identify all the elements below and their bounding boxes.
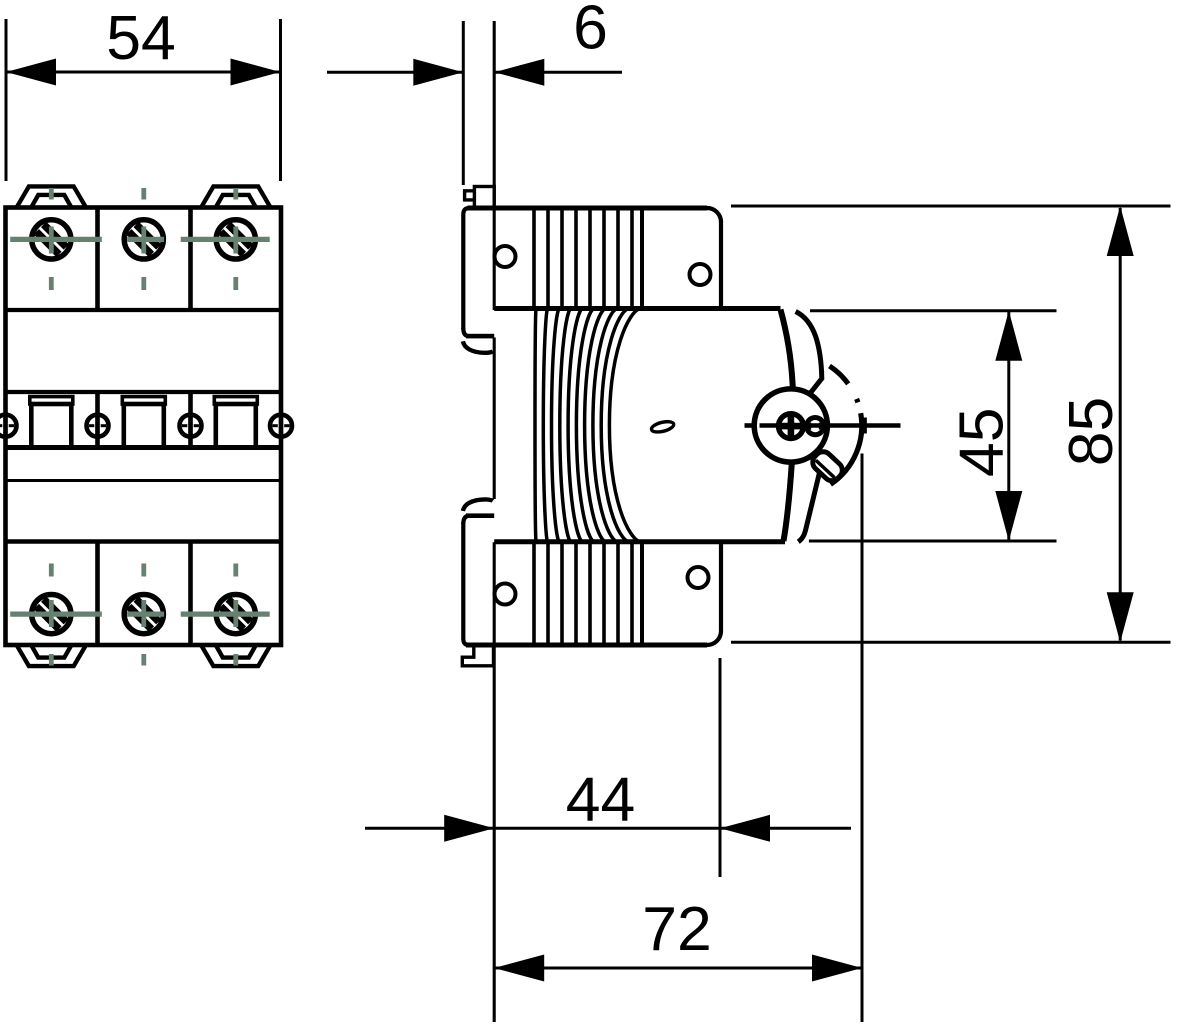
side view back edge lower / extension line <box>493 542 496 1022</box>
rivet screw 1 (middle band) <box>0 414 17 437</box>
green centerlines horizontal top screws <box>10 237 270 242</box>
DIN clip lower foot <box>462 647 493 666</box>
side hole circle bottom-right <box>688 567 709 588</box>
side hole circle bottom-left <box>495 584 516 605</box>
toggle lever handle <box>809 448 846 484</box>
front view toggle section bottom line <box>6 445 282 450</box>
front view top terminal section line <box>6 308 282 312</box>
side view bottom edge <box>466 631 721 645</box>
terminal screw bottom pole 1 <box>32 595 71 634</box>
terminal screw bottom pole 3 <box>216 595 255 634</box>
terminal screw top pole 3 <box>216 220 255 259</box>
DIN clip lower latch hook <box>463 499 494 524</box>
dim 6 left extension line <box>462 21 465 185</box>
dim 44 left arrowhead <box>444 815 494 842</box>
side view left edge upper (DIN housing) <box>463 208 469 330</box>
side view back edge upper segment <box>493 21 496 310</box>
dim 45 bottom extension line <box>809 540 1057 543</box>
svg-text:44: 44 <box>566 765 636 835</box>
side view back edge middle segment <box>493 338 496 500</box>
rivet screw 2 (middle band) <box>87 414 109 437</box>
rib stripes bottom flange <box>534 542 632 643</box>
dim 72 right arrowhead <box>812 955 862 982</box>
dim 54 right extension line <box>279 19 282 181</box>
dim 85 bottom extension line <box>731 641 1171 644</box>
dim 85 label <box>1056 397 1126 467</box>
curved rib arcs middle section <box>535 309 640 542</box>
green vertical centerline top pole 1 <box>49 188 54 290</box>
svg-text:72: 72 <box>642 894 712 964</box>
flat panel left edge bottom <box>640 542 644 645</box>
toggle horizontal centerline <box>745 423 901 428</box>
front view middle thin line <box>6 479 282 482</box>
toggle pivot small circle <box>806 418 824 435</box>
dim 54 left arrowhead <box>6 59 56 86</box>
dim 54 right arrowhead <box>231 59 281 86</box>
side hole circle top-left <box>495 246 516 267</box>
dim 45 top extension line <box>810 309 1057 312</box>
dim 44 right extension line <box>719 658 722 877</box>
green centerlines horizontal bottom screws <box>10 611 270 616</box>
toggle handle pole 2 <box>122 397 165 448</box>
terminal screw bottom pole 2 <box>124 595 163 634</box>
front view pole divider 2 (toggle section) <box>188 392 193 448</box>
green vertical centerline top pole 3 <box>233 188 238 290</box>
dim 85 top extension line <box>731 205 1171 208</box>
dim 54 left extension line <box>5 19 8 181</box>
dim 6 right arrowhead <box>494 59 544 86</box>
svg-text:54: 54 <box>106 3 176 73</box>
dim 44 label <box>566 765 636 835</box>
rivet screw 3 (middle band) <box>180 414 202 437</box>
front bottom-right mounting tab <box>201 645 271 666</box>
front face profile line upper <box>781 310 793 390</box>
dim 85 dimension line <box>1119 208 1122 641</box>
side view right edge upper <box>719 221 723 309</box>
front face profile line lower <box>784 463 792 541</box>
rivet screw 4 (middle band) <box>270 414 292 437</box>
dim 44 dimension line <box>365 827 851 830</box>
front view bottom terminal section line <box>6 539 282 543</box>
dim 45 dimension line <box>1007 312 1010 540</box>
dim 6 dimension line left tail <box>327 71 463 74</box>
bezel top edge <box>796 312 822 393</box>
dim 44 right arrowhead <box>720 815 770 842</box>
green vertical centerline bottom pole 1 <box>49 564 54 666</box>
dim 72 label <box>642 894 712 964</box>
dim 45 top arrowhead <box>995 311 1022 361</box>
green vertical centerline bottom pole 3 <box>233 564 238 666</box>
dim 6 left arrowhead <box>413 59 463 86</box>
dim 6 label <box>573 0 608 63</box>
side view flange bottom line upper <box>494 306 780 311</box>
rib stripes top flange <box>534 210 632 308</box>
green vertical centerline bottom pole 2 <box>141 564 146 666</box>
toggle swing dashed arc <box>830 366 862 484</box>
toggle handle pole 1 <box>30 397 73 448</box>
toggle handle pole 3 <box>214 397 257 448</box>
terminal screw top pole 2 <box>124 220 163 259</box>
flat panel left edge top <box>640 208 644 308</box>
DIN clip top hook <box>465 187 495 209</box>
svg-text:6: 6 <box>573 0 608 63</box>
dim 45 label <box>947 407 1017 477</box>
dim 45 bottom arrowhead <box>995 491 1022 541</box>
dim 72 dimension line <box>494 967 862 970</box>
bezel bottom edge <box>798 471 820 542</box>
dim 72 left arrowhead <box>494 955 544 982</box>
housing marking sliver <box>650 420 674 434</box>
centerline cross tick <box>860 418 867 434</box>
svg-text:45: 45 <box>947 407 1017 477</box>
DIN clip upper latch hook <box>463 328 494 353</box>
DIN clip lower body left edge <box>463 522 469 645</box>
dim 85 bottom arrowhead <box>1107 592 1134 642</box>
front bottom-left mounting tab <box>16 645 86 666</box>
front view pole divider 2 (bottom terminal) <box>188 542 193 646</box>
green vertical centerline top pole 2 <box>141 188 146 290</box>
toggle knob circle <box>754 389 827 462</box>
front view pole divider 1 (toggle section) <box>95 392 100 448</box>
side view top edge <box>468 208 722 222</box>
dim 6 dimension line right tail <box>494 71 622 74</box>
svg-text:85: 85 <box>1056 397 1126 467</box>
dim 54 label <box>106 3 176 73</box>
dim 54 dimension line <box>6 71 281 74</box>
front top-left mounting tab <box>16 186 86 207</box>
side view right edge lower <box>719 542 723 631</box>
front view pole divider 1 (top terminal) <box>95 208 100 311</box>
front view pole divider 1 (bottom terminal) <box>95 542 100 646</box>
side hole circle top-right <box>690 264 711 285</box>
side view flange top line lower <box>494 539 785 544</box>
dim 85 top arrowhead <box>1107 206 1134 256</box>
front top-right mounting tab <box>201 186 271 207</box>
front view pole divider 2 (top terminal) <box>188 208 193 311</box>
terminal screw top pole 1 <box>32 220 71 259</box>
dim 72 right extension line <box>861 454 864 1023</box>
toggle phillips screw <box>777 413 804 440</box>
front view body outline <box>6 208 282 646</box>
front view toggle section top line <box>6 390 282 394</box>
